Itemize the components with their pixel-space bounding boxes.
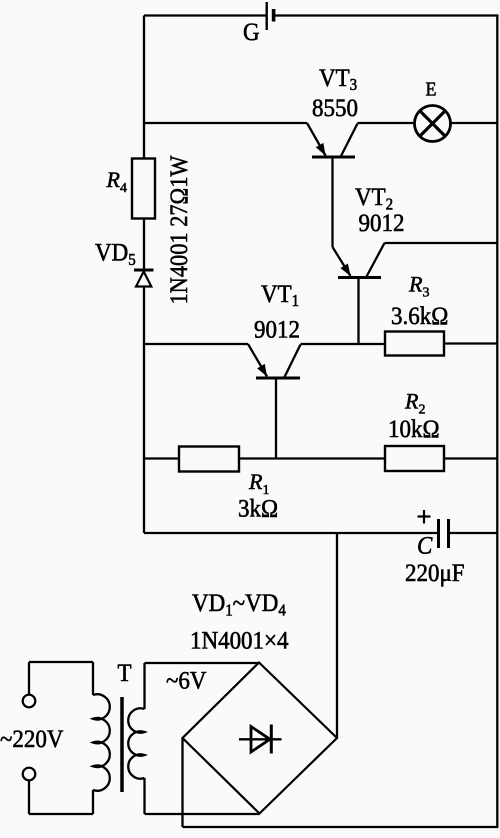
transistor VT1 emitter with arrow [248,344,267,377]
wire top left to battery [144,14,266,16]
svg-text:E: E [426,79,437,101]
wire primary bottom lead [92,790,94,814]
wire source top [29,661,93,663]
svg-text:220μF: 220μF [405,559,465,587]
lamp E cross [420,111,445,136]
wire VT2 base lead down [357,278,359,345]
svg-text:9012: 9012 [254,316,300,344]
wire VT1 base lead down [275,378,277,459]
resistor R2 [385,446,444,471]
wire source left top [28,662,30,695]
transistor VT1 collector [284,345,301,379]
wire source left bottom [28,780,30,814]
diode VD5 triangle [136,272,151,287]
plus sign of capacitor [418,510,431,524]
lamp E circle [415,106,451,142]
svg-text:~220V: ~220V [0,725,64,753]
wire primary top lead [92,662,94,695]
wire left rail lower segment [143,287,145,534]
wire VT1 collector to R3 [301,343,386,345]
svg-text:G: G [243,18,260,46]
wire secondary top lead [143,663,145,709]
wire junction down to bridge plus [336,533,338,738]
transistor VT2 collector [366,243,385,278]
bridge diode wire [239,738,282,740]
resistor R4 [132,159,155,219]
svg-text:1N4001 27Ω1W: 1N4001 27Ω1W [166,155,193,304]
wire bottom of upper loop [144,532,437,534]
wire lamp to right rail [451,122,498,124]
wire left rail to R1 [144,457,179,459]
transformer core bar [120,697,124,792]
wire bridge minus down [181,738,183,827]
svg-text:VD1~VD4: VD1~VD4 [192,589,286,620]
wire VT3 collector to lamp [358,122,415,124]
transistor VT1 base bar [256,377,300,380]
svg-text:9012: 9012 [359,209,405,237]
wire battery to right rail [275,14,499,16]
transistor VT3 emitter with arrow [307,123,326,156]
wire left rail to VT3 emitter [144,122,307,124]
transformer secondary coil [128,708,144,778]
resistor R1 [179,447,239,472]
capacitor C left plate [437,519,440,548]
wire VT3 base lead down [331,157,333,247]
transformer primary coil [93,694,110,790]
svg-text:T: T [118,659,132,687]
wire secondary top to bridge [145,662,260,664]
battery G long plate [266,2,268,30]
wire left rail top segment [143,16,145,159]
transistor VT2 base bar [338,276,381,279]
bridge rectifier diamond [183,663,338,814]
wire bottom return to right rail [183,826,499,828]
battery G short plate [272,9,276,22]
wire source bottom [29,813,93,815]
diode VD5 cathode bar [134,269,154,272]
wire secondary bottom lead [143,778,145,814]
wire right rail [496,16,498,828]
wire left rail to VT1 emitter [144,343,248,345]
resistor R3 [385,332,444,356]
wire capacitor to right rail [450,532,497,534]
svg-text:1N4001×4: 1N4001×4 [190,626,289,654]
bridge diode cathode bar [270,725,273,754]
svg-text:3kΩ: 3kΩ [238,494,278,522]
bridge diode triangle [251,727,270,753]
svg-text:8550: 8550 [312,94,358,122]
wire VT2 collector to right rail [385,242,498,244]
svg-text:C: C [417,532,433,560]
wire secondary bottom to bridge [145,813,260,815]
wire R4 to VD5 [143,219,145,270]
wire R1 to R2 [239,457,385,459]
capacitor C right plate [447,519,450,548]
svg-text:~6V: ~6V [166,667,207,695]
svg-text:10kΩ: 10kΩ [388,415,440,443]
wire R2 to right rail [444,457,497,459]
wire R3 to right rail [444,342,497,344]
terminal lower circle [23,768,36,781]
transistor VT3 base bar [312,156,355,159]
terminal upper circle [23,695,36,708]
svg-text:3.6kΩ: 3.6kΩ [391,302,448,330]
transistor VT3 collector [341,124,358,158]
transistor VT2 emitter with arrow [333,247,351,276]
